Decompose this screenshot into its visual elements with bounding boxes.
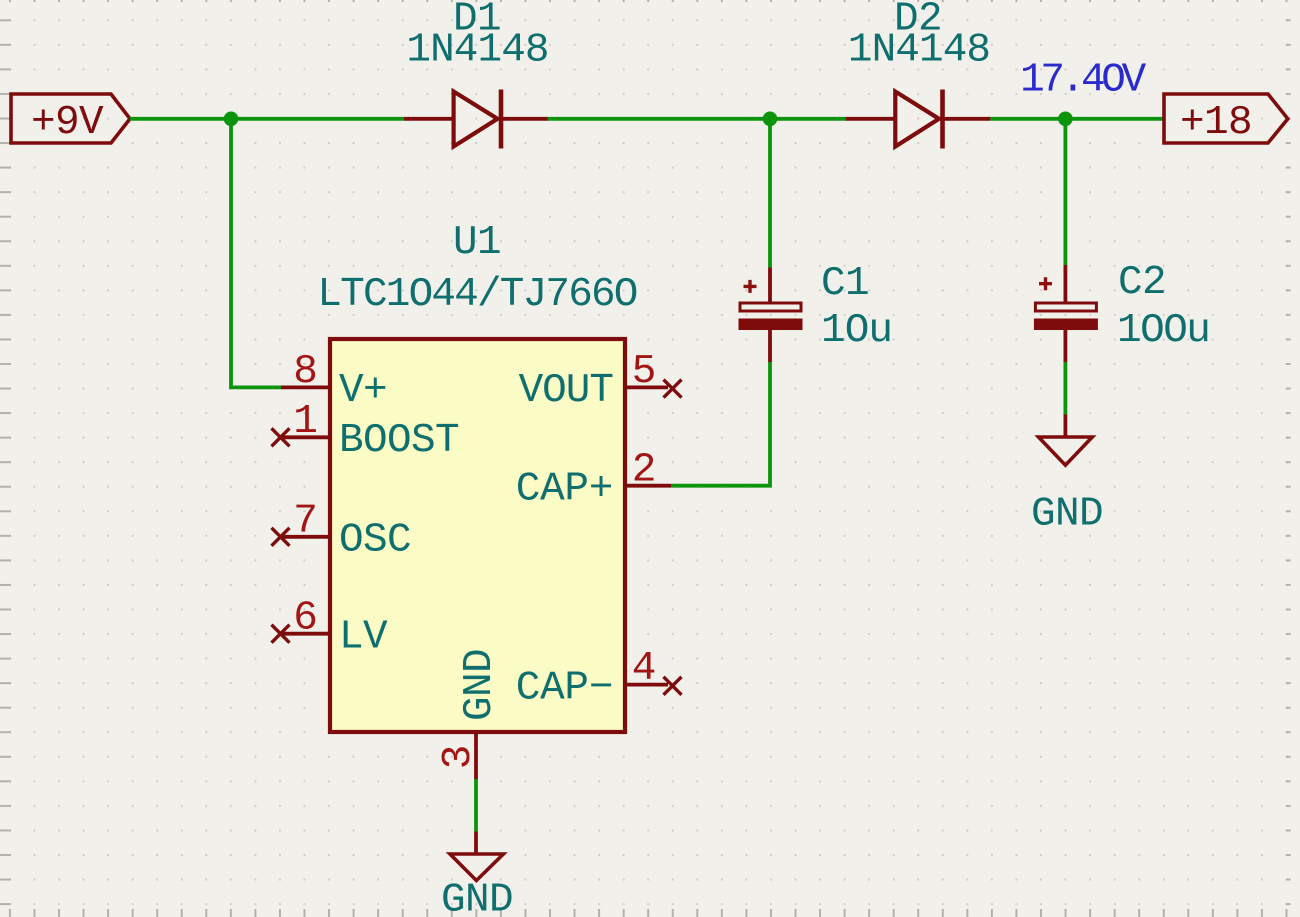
diode D1 xyxy=(404,90,548,149)
U1 pin 5 VOUT xyxy=(519,349,682,414)
U1 pin 3 GND xyxy=(436,649,503,779)
capacitor C1 xyxy=(739,268,803,363)
wire junction B down to C1 xyxy=(768,119,772,268)
svg-text:BOOST: BOOST xyxy=(339,418,459,464)
svg-text:8: 8 xyxy=(293,349,318,395)
svg-text:1: 1 xyxy=(293,399,318,445)
svg-text:OSC: OSC xyxy=(339,518,411,564)
svg-text:LTC1O44/TJ766O: LTC1O44/TJ766O xyxy=(317,272,636,318)
svg-text:1OOu: 1OOu xyxy=(1117,308,1209,354)
svg-text:U1: U1 xyxy=(453,220,501,266)
U1 pin 6 LV xyxy=(272,595,389,660)
wire U1 pin 3 to ground xyxy=(474,779,478,832)
svg-text:CAP+: CAP+ xyxy=(516,467,613,513)
junction A xyxy=(224,112,239,127)
svg-text:7: 7 xyxy=(293,498,318,544)
U1 pin 4 CAP- xyxy=(516,646,682,711)
op-amp U1 body xyxy=(330,339,625,732)
svg-text:3: 3 xyxy=(436,745,482,770)
junction B xyxy=(763,112,778,127)
svg-text:2: 2 xyxy=(632,447,657,493)
power label +18 xyxy=(1164,94,1288,146)
svg-text:V+: V+ xyxy=(339,368,387,414)
svg-text:1N4148: 1N4148 xyxy=(848,28,990,74)
diode D2 xyxy=(846,90,991,149)
svg-text:GND: GND xyxy=(457,649,503,721)
svg-text:C1: C1 xyxy=(821,261,869,307)
wire junction A to D1 anode xyxy=(231,117,404,121)
wire +9V to junction A xyxy=(130,117,231,121)
svg-text:1Ou: 1Ou xyxy=(821,308,892,354)
wire U1 CAP+ to C1 bottom xyxy=(671,362,770,486)
power label +9V xyxy=(11,94,130,146)
svg-text:1N4148: 1N4148 xyxy=(406,28,548,74)
svg-text:CAP−: CAP− xyxy=(516,666,613,712)
svg-text:4: 4 xyxy=(632,646,657,692)
ground symbol (U1 pin 3) xyxy=(441,832,513,917)
wire D1 cathode to junction B xyxy=(548,117,846,121)
svg-text:LV: LV xyxy=(339,615,388,661)
wire D2 cathode to junction C xyxy=(990,117,1164,121)
U1 pin 7 OSC xyxy=(272,498,412,563)
svg-text:VOUT: VOUT xyxy=(519,368,614,414)
U1 pin 8 V+ xyxy=(281,349,387,414)
svg-text:6: 6 xyxy=(293,595,318,641)
capacitor C2 xyxy=(1034,265,1098,362)
junction C xyxy=(1058,112,1073,127)
svg-text:GND: GND xyxy=(441,878,513,917)
wire junction C down to C2 xyxy=(1064,119,1068,265)
U1 pin 2 CAP+ xyxy=(516,447,671,512)
svg-text:5: 5 xyxy=(632,349,657,395)
svg-text:C2: C2 xyxy=(1118,260,1166,306)
wire junction A down to U1 V+ xyxy=(231,119,281,388)
ground symbol (C2) xyxy=(1031,415,1103,538)
svg-text:17.4OV: 17.4OV xyxy=(1020,58,1147,104)
wire C2 to ground xyxy=(1064,362,1068,415)
svg-text:+9V: +9V xyxy=(31,100,104,146)
U1 pin 1 BOOST xyxy=(272,399,460,464)
svg-text:+18: +18 xyxy=(1180,100,1252,146)
svg-text:GND: GND xyxy=(1031,492,1103,538)
